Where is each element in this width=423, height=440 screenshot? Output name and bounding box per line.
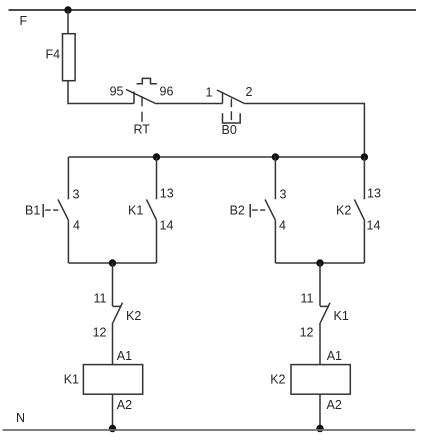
svg-text:12: 12 <box>300 326 314 340</box>
wire coil K2 to N <box>319 394 321 428</box>
node join left branch <box>109 259 116 266</box>
svg-text:RT: RT <box>134 123 151 137</box>
node coil K2 / N rail <box>316 425 323 432</box>
svg-text:2: 2 <box>246 85 253 99</box>
wire F phase rail <box>9 9 417 11</box>
svg-text:A1: A1 <box>327 349 342 363</box>
fuse F4 <box>63 34 76 81</box>
svg-text:A1: A1 <box>117 349 132 363</box>
contact B1 3-4 start pushbutton NO <box>43 157 68 263</box>
svg-text:K1: K1 <box>334 309 349 323</box>
contact B2 3-4 start pushbutton NO <box>250 157 275 263</box>
svg-text:11: 11 <box>301 292 314 306</box>
wire RT to B0 <box>156 103 223 105</box>
svg-text:F: F <box>20 14 28 28</box>
svg-text:11: 11 <box>94 292 107 306</box>
contact RT 95-96 thermal NC <box>126 78 157 122</box>
svg-text:B2: B2 <box>230 204 245 218</box>
coil K1 <box>83 365 142 395</box>
contact K2 13-14 seal-in NO <box>354 157 364 263</box>
svg-text:B1: B1 <box>25 204 40 218</box>
svg-text:13: 13 <box>160 187 174 201</box>
wire join B2/K2 <box>275 262 364 264</box>
svg-text:4: 4 <box>279 219 286 233</box>
wire F4 bottom lead to RT <box>68 81 134 104</box>
wire coil K1 to N <box>112 394 114 428</box>
node join right branch <box>316 259 323 266</box>
wire down to K1 interlock <box>319 263 321 306</box>
node coil K1 / N rail <box>109 425 116 432</box>
wire join B1/K1 <box>68 262 156 264</box>
wire N neutral rail <box>3 429 416 431</box>
node bus / right drop <box>361 153 368 160</box>
contact K2 11-12 interlock NC <box>113 303 123 323</box>
svg-text:B0: B0 <box>222 123 237 137</box>
svg-text:3: 3 <box>73 188 80 202</box>
svg-text:K2: K2 <box>270 373 285 387</box>
svg-text:95: 95 <box>110 85 124 99</box>
coil K2 <box>291 365 350 395</box>
svg-text:K1: K1 <box>128 204 143 218</box>
svg-text:A2: A2 <box>327 398 342 412</box>
svg-text:96: 96 <box>160 85 174 99</box>
svg-text:14: 14 <box>367 219 381 233</box>
svg-text:K2: K2 <box>336 204 351 218</box>
wire control bus <box>68 156 364 158</box>
node junction F rail / F4 <box>64 6 71 13</box>
svg-text:3: 3 <box>280 188 287 202</box>
svg-text:F4: F4 <box>46 48 61 62</box>
wire K1 interlock to coil K2 <box>319 323 321 365</box>
svg-text:A2: A2 <box>117 398 132 412</box>
node bus / K1 branch <box>153 153 160 160</box>
svg-text:12: 12 <box>93 326 107 340</box>
node bus / B2 branch <box>272 153 279 160</box>
svg-text:13: 13 <box>367 187 381 201</box>
svg-text:K2: K2 <box>126 309 141 323</box>
svg-text:14: 14 <box>160 219 174 233</box>
wire F4 top lead <box>67 10 69 34</box>
svg-text:4: 4 <box>73 219 80 233</box>
contact K1 11-12 interlock NC <box>320 303 330 323</box>
contact K1 13-14 seal-in NO <box>147 157 157 263</box>
svg-text:K1: K1 <box>64 373 79 387</box>
contact B0 1-2 stop pushbutton NC <box>217 90 245 123</box>
wire down to K2 interlock <box>112 263 114 306</box>
wire K2 interlock to coil K1 <box>112 323 114 365</box>
svg-text:1: 1 <box>206 86 213 100</box>
wire B0 to right drop <box>244 104 364 158</box>
svg-text:N: N <box>16 411 25 425</box>
